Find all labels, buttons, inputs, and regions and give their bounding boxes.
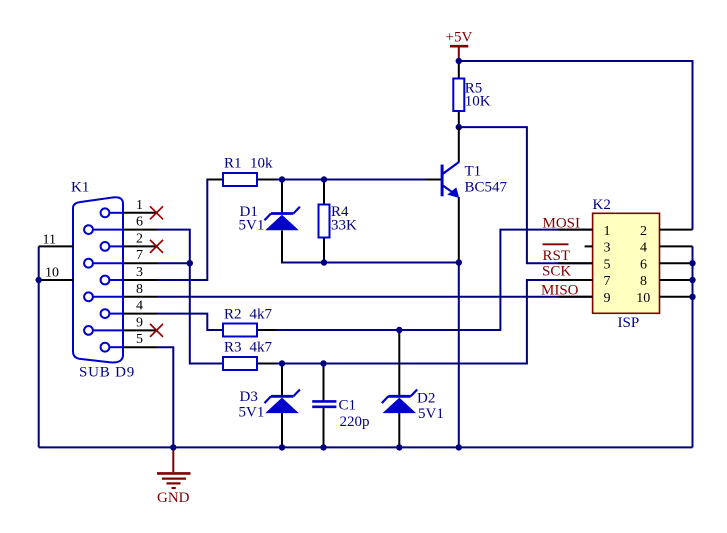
svg-text:SUB D9: SUB D9 — [79, 365, 135, 381]
svg-text:D2: D2 — [417, 391, 435, 407]
svg-text:10: 10 — [636, 291, 650, 306]
svg-text:1: 1 — [136, 198, 143, 213]
K1 external pins black — [39, 213, 157, 347]
svg-text:5V1: 5V1 — [418, 406, 444, 422]
svg-text:T1: T1 — [465, 164, 482, 180]
wire SCK: R3 row up to K2 pin7 — [273, 280, 593, 364]
wire D1 R4 bottom rail to emitter — [282, 231, 459, 263]
svg-text:9: 9 — [604, 291, 611, 306]
connector K2 ISP box — [593, 213, 660, 313]
wire DB9 pin5 to ground junction — [157, 347, 173, 447]
K2 left side pins black — [558, 230, 592, 297]
svg-text:GND: GND — [157, 490, 190, 506]
wire DB9 pin6 and pin7 tie down to R3 — [157, 230, 223, 364]
wire top +5V rail to right — [459, 61, 693, 230]
capacitor C1 — [312, 401, 336, 406]
svg-text:+5V: +5V — [446, 30, 473, 46]
svg-text:4: 4 — [640, 241, 647, 256]
svg-text:6: 6 — [136, 215, 143, 230]
wire bottom ground rail — [39, 446, 693, 448]
node R2 to D2 junction — [396, 327, 402, 333]
node +5V junction — [456, 58, 462, 64]
connector K1 SUB D9 body — [73, 197, 123, 362]
node collector junction — [456, 124, 462, 130]
svg-text:33K: 33K — [331, 218, 357, 234]
svg-text:7: 7 — [604, 274, 611, 289]
wire DB9 pin4 down to R2 — [157, 314, 223, 330]
diode D2 zener — [382, 390, 417, 404]
wire collector node to K2 pin5 (RST) — [459, 127, 593, 263]
svg-text:11: 11 — [43, 232, 56, 247]
node R4 bottom junction — [321, 259, 327, 265]
node D1 top junction — [279, 176, 285, 182]
svg-text:R1: R1 — [224, 156, 242, 172]
svg-text:2: 2 — [136, 231, 143, 246]
resistor R1 — [207, 179, 223, 181]
wire D1 top lead — [281, 180, 283, 214]
K1 internal pin stubs — [93, 213, 123, 347]
K2 right side pins — [660, 230, 693, 297]
svg-text:MOSI: MOSI — [543, 216, 581, 232]
svg-text:4: 4 — [136, 299, 143, 314]
wire MOSI: R2 row up to K2 pin1 — [273, 230, 593, 330]
wire MISO: DB9 pin8 to K2 pin9 — [157, 296, 593, 298]
no-ERC X pin2 — [150, 240, 163, 253]
transistor Q T1 — [458, 127, 460, 162]
K2 pin3 stub — [585, 245, 593, 247]
pin 10 stub — [39, 279, 73, 281]
diode D1 zener — [265, 207, 300, 221]
svg-text:ISP: ISP — [618, 315, 640, 331]
node right rail junctions — [689, 260, 695, 266]
svg-text:3: 3 — [136, 265, 143, 280]
svg-text:9: 9 — [136, 315, 143, 330]
wire R4 verticals — [323, 180, 325, 205]
svg-text:D3: D3 — [240, 389, 258, 405]
svg-text:K2: K2 — [593, 197, 611, 213]
wire right ground vertical pins 4,6,8,10 — [692, 246, 694, 447]
svg-text:RST: RST — [543, 248, 571, 264]
svg-text:7: 7 — [136, 248, 143, 263]
svg-text:8: 8 — [640, 274, 647, 289]
diode D3 zener — [265, 390, 300, 404]
node C1 top junction — [320, 360, 326, 366]
svg-text:220p: 220p — [340, 414, 370, 430]
svg-text:10K: 10K — [465, 94, 491, 110]
resistor R4 — [319, 205, 330, 238]
svg-text:R3: R3 — [224, 340, 242, 356]
wire C1 verticals — [323, 364, 325, 401]
pin 11 stub — [39, 245, 73, 247]
svg-text:2: 2 — [640, 224, 647, 239]
svg-text:MISO: MISO — [541, 283, 579, 299]
svg-text:K1: K1 — [71, 180, 89, 196]
svg-text:8: 8 — [136, 282, 143, 297]
wire left rail from pin11 down to bottom rail — [38, 246, 40, 447]
no-ERC X pin9 — [150, 324, 163, 337]
+5V power symbol — [450, 46, 468, 61]
node D3 top junction — [279, 360, 285, 366]
svg-text:SCK: SCK — [542, 264, 571, 280]
svg-text:10k: 10k — [250, 156, 273, 172]
node R4 top junction — [321, 176, 327, 182]
svg-text:R2: R2 — [224, 307, 242, 323]
no-ERC X pin1 — [150, 206, 163, 219]
wire DB9 pin3 up to R1 — [157, 180, 223, 281]
K2 pin numbers — [604, 224, 651, 306]
resistor R3 — [257, 363, 276, 365]
svg-text:1: 1 — [604, 224, 611, 239]
svg-text:5: 5 — [604, 257, 611, 272]
wire D2 verticals — [398, 330, 400, 396]
svg-text:3: 3 — [604, 241, 611, 256]
ground symbol — [157, 447, 191, 488]
resistor R5 — [458, 61, 460, 79]
svg-text:C1: C1 — [339, 398, 357, 414]
svg-text:BC547: BC547 — [465, 180, 508, 196]
svg-text:4k7: 4k7 — [250, 340, 273, 356]
node pins 10/11 junction — [36, 277, 42, 283]
node ground rail junctions — [170, 444, 176, 450]
svg-text:5: 5 — [136, 332, 143, 347]
wire R1 output to transistor base row — [257, 179, 442, 181]
node emitter junction — [456, 259, 462, 265]
svg-text:10: 10 — [45, 266, 59, 281]
wire DB9 pin7 into junction — [157, 262, 190, 264]
node pins 6/7 junction — [187, 260, 193, 266]
svg-text:5V1: 5V1 — [239, 405, 265, 421]
wire D1 bottom lead — [281, 231, 283, 263]
wire D3 verticals — [281, 364, 283, 396]
svg-text:5V1: 5V1 — [239, 218, 265, 234]
svg-text:4k7: 4k7 — [250, 307, 273, 323]
svg-text:6: 6 — [640, 257, 647, 272]
resistor R2 — [257, 329, 276, 331]
wire emitter down to ground rail — [458, 263, 460, 448]
K1 pin circles — [84, 208, 109, 351]
